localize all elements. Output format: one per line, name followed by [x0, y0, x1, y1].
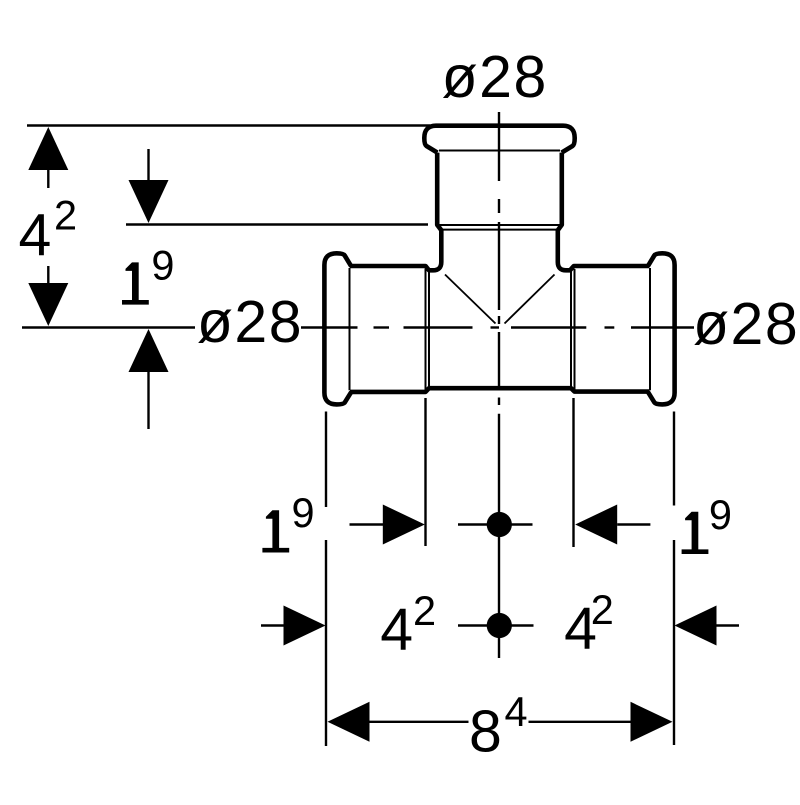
socket end line pair right: [574, 269, 576, 390]
row3 right outward arrow: [529, 702, 673, 742]
bead crease line right: [649, 268, 651, 390]
bead crease line left: [349, 268, 351, 390]
vertical centerline dash-dot: [498, 112, 500, 658]
tee fitting: top socket press bead: [424, 126, 574, 153]
inner V chamfer line left: [445, 275, 496, 324]
socket end line pair top: [439, 224, 561, 226]
extension line below right bead (x=674): [673, 412, 675, 506]
row2 far-left arrow to bead line: [261, 606, 326, 646]
tee fitting: bottom outline: [350, 388, 649, 392]
dimension 42 vertical: lower arrow: [28, 266, 68, 326]
row1 center origin dot: [458, 512, 533, 537]
svg-text:2: 2: [413, 587, 436, 634]
socket end line pair left: [425, 269, 427, 390]
svg-text:4: 4: [505, 688, 528, 735]
tee fitting: right socket upper outline: [558, 153, 649, 271]
horizontal centerline left segment: [22, 326, 195, 328]
inner V chamfer line right: [505, 275, 555, 324]
row1 right arrow to socket end: [575, 505, 650, 545]
row2 far-right arrow to bead line: [675, 606, 740, 646]
row3 overall width: left outward arrow: [328, 702, 469, 742]
label depth 19 lower-right: [682, 512, 709, 554]
tee fitting: right press bead: [648, 253, 675, 404]
dimension 19 upper: up arrow to centerline: [129, 329, 169, 429]
svg-text:ø28: ø28: [197, 289, 303, 355]
extension line socket-depth (y=224.5): [126, 223, 428, 225]
extension line top (y=125): [27, 124, 430, 126]
svg-text:9: 9: [151, 242, 174, 289]
horizontal centerline dash-dot through fitting: [301, 326, 694, 328]
svg-text:4: 4: [380, 597, 413, 663]
bead crease line top: [439, 150, 560, 152]
label depth 19 upper: [122, 262, 149, 304]
extension line left socket end (x=425.5): [424, 398, 426, 546]
label depth 19 lower-left: [262, 510, 289, 552]
tee fitting: left socket upper outline: [350, 153, 441, 271]
svg-text:2: 2: [54, 192, 77, 239]
dimension 19 upper: down arrow to y=224.5: [129, 149, 169, 223]
svg-text:9: 9: [709, 491, 732, 538]
svg-text:9: 9: [292, 489, 315, 536]
svg-text:4: 4: [19, 203, 52, 269]
extension line below left bead (x=326): [325, 412, 327, 508]
row2 center origin dot: [458, 613, 534, 638]
svg-text:8: 8: [469, 699, 502, 765]
svg-text:ø28: ø28: [442, 44, 548, 110]
tee fitting: left press bead: [324, 253, 351, 404]
dimension 42 vertical: upper arrow: [28, 127, 68, 188]
extension line right socket end (x=574): [572, 398, 574, 547]
svg-text:ø28: ø28: [693, 291, 799, 357]
row1 left arrow to socket end: [350, 505, 425, 545]
svg-text:2: 2: [591, 586, 614, 633]
